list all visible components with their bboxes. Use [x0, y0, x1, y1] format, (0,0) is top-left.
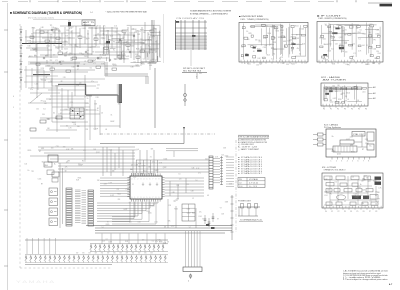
- svg-text:0.022: 0.022: [110, 195, 114, 197]
- svg-text:L101: L101: [149, 65, 153, 67]
- svg-text:0.022: 0.022: [114, 31, 118, 33]
- svg-text:5.6: 5.6: [178, 173, 180, 175]
- svg-text:C33: C33: [151, 52, 154, 54]
- key matrix grid: [70, 108, 84, 119]
- svg-text:5.6: 5.6: [101, 113, 103, 115]
- svg-text:C105: C105: [129, 33, 133, 35]
- svg-text:RT: RT: [41, 184, 43, 186]
- svg-text:4.7K: 4.7K: [99, 57, 102, 59]
- wires right of main IC: [165, 178, 204, 228]
- svg-text:1000P: 1000P: [72, 122, 76, 124]
- svg-text:68: 68: [357, 100, 359, 102]
- svg-text:P6: P6: [365, 109, 367, 111]
- svg-text:0.022: 0.022: [362, 190, 366, 192]
- svg-text:8.2K: 8.2K: [125, 241, 128, 243]
- tuner wiring mesh top-left: [21, 20, 160, 104]
- svg-text:X1: X1: [366, 45, 368, 47]
- svg-text:X1: X1: [122, 51, 124, 53]
- svg-text:IC1: IC1: [353, 53, 355, 55]
- svg-text:68: 68: [124, 59, 126, 61]
- bundle above IC to connector: [136, 149, 209, 173]
- svg-text:0.01: 0.01: [138, 163, 141, 165]
- svg-text:330: 330: [332, 86, 335, 88]
- svg-text:22K: 22K: [118, 199, 121, 201]
- svg-text:VT: VT: [378, 198, 380, 200]
- svg-text:8.2K: 8.2K: [196, 168, 199, 170]
- svg-text:0.01: 0.01: [205, 158, 208, 160]
- svg-text:P2: P2: [337, 109, 339, 111]
- svg-text:RT: RT: [46, 77, 48, 79]
- svg-text:D104: D104: [45, 32, 49, 34]
- connector pin labels: [226, 157, 234, 187]
- svg-text:100: 100: [60, 64, 63, 66]
- svg-text:6.8K: 6.8K: [101, 63, 104, 65]
- svg-text:IC1: IC1: [90, 68, 93, 70]
- svg-text:47u: 47u: [198, 173, 201, 175]
- svg-text:120: 120: [345, 96, 348, 98]
- svg-text:4.7K: 4.7K: [337, 101, 340, 103]
- pin name column mid 2: [82, 191, 87, 224]
- svg-text:68: 68: [105, 43, 107, 45]
- svg-text:2.2K: 2.2K: [376, 201, 379, 203]
- switch row upper: [90, 244, 168, 252]
- svg-text:D104: D104: [268, 33, 272, 35]
- svg-text:C33: C33: [192, 167, 195, 169]
- svg-text:22K: 22K: [344, 42, 347, 44]
- svg-text:330: 330: [376, 51, 379, 53]
- main area dashed border bottom: [20, 267, 112, 269]
- svg-text:P4: P4: [350, 211, 352, 213]
- svg-text:B+: B+: [127, 29, 129, 31]
- svg-text:0.01: 0.01: [352, 56, 355, 58]
- svg-text:B+: B+: [74, 54, 76, 56]
- svg-text:0.022: 0.022: [352, 33, 356, 35]
- svg-text:R101: R101: [247, 64, 251, 66]
- svg-text:X1: X1: [86, 110, 88, 112]
- svg-text:1-8: 1-8: [239, 183, 242, 185]
- svg-text:120: 120: [131, 165, 134, 167]
- svg-text:RT: RT: [109, 40, 111, 42]
- svg-text:330: 330: [42, 114, 45, 116]
- svg-text:R101: R101: [29, 56, 33, 58]
- svg-text:TP1: TP1: [31, 171, 34, 173]
- svg-text:47u: 47u: [34, 55, 37, 57]
- svg-text:100: 100: [247, 39, 250, 41]
- svg-text:VT: VT: [77, 69, 79, 71]
- svg-text:56K: 56K: [120, 58, 123, 60]
- svg-text:B+: B+: [97, 110, 99, 112]
- svg-text:8.2K: 8.2K: [109, 149, 112, 151]
- svg-text:VT: VT: [129, 203, 131, 205]
- svg-text:6.8K: 6.8K: [131, 66, 134, 68]
- svg-text:8.2K: 8.2K: [96, 26, 99, 28]
- svg-text:120: 120: [179, 179, 182, 181]
- svg-text:1000P: 1000P: [368, 179, 372, 181]
- svg-text:k: k: [188, 281, 189, 283]
- resistor chain row in AM box: [324, 87, 362, 90]
- svg-text:X1: X1: [124, 44, 126, 46]
- component cell column: [44, 162, 63, 228]
- svg-text:120: 120: [69, 113, 72, 115]
- svg-text:1/2W: 1/2W: [225, 202, 229, 204]
- svg-text:X1: X1: [339, 144, 341, 146]
- svg-text:8.2K: 8.2K: [149, 49, 152, 51]
- svg-text:Q102: Q102: [225, 156, 229, 158]
- svg-text:10K: 10K: [93, 149, 96, 151]
- svg-text:D104: D104: [373, 49, 377, 51]
- svg-text:68: 68: [61, 81, 63, 83]
- svg-text:R101: R101: [141, 64, 145, 66]
- svg-text:22K: 22K: [55, 118, 58, 120]
- svg-text:10K: 10K: [372, 63, 375, 65]
- svg-text:330: 330: [362, 179, 365, 181]
- svg-text:120: 120: [36, 109, 39, 111]
- right tick column: [231, 195, 234, 240]
- svg-text:Q102: Q102: [339, 37, 343, 39]
- svg-text:B+: B+: [54, 164, 56, 166]
- svg-text:2.2K: 2.2K: [76, 85, 79, 87]
- svg-text:IC1: IC1: [335, 182, 337, 184]
- svg-text:D104: D104: [46, 46, 50, 48]
- svg-text:68: 68: [207, 195, 209, 197]
- svg-text:330: 330: [375, 192, 378, 194]
- svg-text:Q102: Q102: [187, 213, 191, 215]
- svg-text:IC1: IC1: [83, 150, 86, 152]
- svg-text:Q102: Q102: [296, 38, 300, 40]
- svg-text:4.7K: 4.7K: [358, 51, 361, 53]
- svg-text:0.022: 0.022: [113, 65, 117, 67]
- svg-text:22K: 22K: [65, 35, 68, 37]
- svg-text:1/2W: 1/2W: [90, 28, 94, 30]
- ladder connector strip B: [88, 190, 94, 226]
- svg-text:5.6: 5.6: [375, 204, 377, 206]
- svg-text:47u: 47u: [199, 211, 202, 213]
- svg-text:120: 120: [330, 35, 333, 37]
- svg-text:68: 68: [253, 51, 255, 53]
- svg-text:5.6: 5.6: [360, 30, 362, 32]
- svg-text:68: 68: [31, 37, 33, 39]
- svg-text:Q102: Q102: [369, 24, 373, 26]
- svg-text:VT: VT: [31, 33, 33, 35]
- svg-text:X1: X1: [345, 30, 347, 32]
- svg-text:10K: 10K: [137, 34, 140, 36]
- svg-text:4.7K: 4.7K: [215, 157, 218, 159]
- svg-text:2.2K: 2.2K: [43, 101, 46, 103]
- svg-text:1000P: 1000P: [27, 41, 31, 43]
- svg-text:R101: R101: [351, 151, 355, 153]
- ladder connector strip A: [66, 188, 72, 226]
- feed drops to switch rows: [27, 238, 56, 254]
- svg-text:1/2W: 1/2W: [135, 165, 139, 167]
- svg-text:VT: VT: [291, 51, 293, 53]
- svg-text:2.2K: 2.2K: [363, 62, 366, 64]
- svg-text:5.6: 5.6: [195, 180, 197, 182]
- connector strip CN101: [117, 84, 122, 128]
- svg-text:X1: X1: [153, 204, 155, 206]
- svg-text:0 - 3.3: 0 - 3.3: [249, 186, 257, 188]
- connector strip CN605: [209, 156, 213, 189]
- svg-text:TP1: TP1: [373, 40, 376, 42]
- svg-text:X1: X1: [49, 99, 51, 101]
- svg-text:B+: B+: [103, 34, 105, 36]
- svg-text:ST DATA CLOCK CE 7: ST DATA CLOCK CE 7: [241, 172, 262, 175]
- svg-text:2.2K: 2.2K: [136, 199, 139, 201]
- svg-text:C33: C33: [254, 46, 257, 48]
- svg-text:C105: C105: [146, 211, 150, 213]
- svg-text:3. Circuit subject to change w: 3. Circuit subject to change without pri…: [343, 278, 389, 281]
- left border component chain: [20, 30, 23, 81]
- svg-text:P4: P4: [351, 109, 353, 111]
- svg-text:C105: C105: [118, 40, 122, 42]
- svg-text:AM TUNER: AM TUNER: [323, 78, 348, 81]
- svg-text:10K: 10K: [336, 24, 339, 26]
- svg-text:TP1: TP1: [155, 60, 158, 62]
- svg-text:R205: R205: [140, 30, 144, 32]
- svg-text:△ : SAFETY COMPONENT: △ : SAFETY COMPONENT: [238, 148, 260, 151]
- dash-dot control line: [100, 133, 215, 135]
- svg-text:B+: B+: [332, 136, 334, 138]
- svg-text:0.01: 0.01: [271, 47, 274, 49]
- svg-text:R101: R101: [267, 54, 271, 56]
- svg-text:TP1: TP1: [50, 25, 53, 27]
- svg-text:IC1: IC1: [358, 39, 360, 41]
- svg-text:Q102: Q102: [330, 102, 334, 104]
- svg-text:RT: RT: [378, 63, 380, 65]
- svg-text:2.2K: 2.2K: [103, 55, 106, 57]
- svg-text:8.2K: 8.2K: [323, 59, 326, 61]
- svg-text:100: 100: [51, 147, 54, 149]
- svg-text:RT: RT: [259, 41, 261, 43]
- svg-text:IC1: IC1: [93, 63, 96, 65]
- svg-text:B+: B+: [82, 115, 84, 117]
- svg-text:5.6: 5.6: [50, 80, 52, 82]
- svg-text:VT: VT: [281, 33, 283, 35]
- svg-text:22K: 22K: [229, 184, 232, 186]
- svg-text:22K: 22K: [327, 190, 330, 192]
- mid-left wiring: [28, 75, 120, 160]
- svg-text:120: 120: [53, 55, 56, 57]
- svg-text:100: 100: [25, 164, 28, 166]
- svg-text:P5: P5: [357, 211, 359, 213]
- svg-text:330: 330: [76, 47, 79, 49]
- svg-text:B+: B+: [360, 184, 362, 186]
- switch row upper labels: [76, 252, 153, 254]
- svg-text:R205: R205: [106, 224, 110, 226]
- svg-text:RT: RT: [39, 151, 41, 153]
- svg-text:47u: 47u: [297, 48, 300, 50]
- svg-text:6.8K: 6.8K: [187, 209, 190, 211]
- svg-text:R205: R205: [159, 242, 163, 244]
- svg-text:P2: P2: [338, 211, 340, 213]
- svg-text:L101: L101: [132, 41, 136, 43]
- sheet corner rule: [368, 2, 392, 4]
- svg-text:RT: RT: [296, 34, 298, 36]
- svg-text:22K: 22K: [97, 180, 100, 182]
- svg-text:IC1: IC1: [117, 189, 120, 191]
- svg-text:330: 330: [63, 147, 66, 149]
- svg-text:56K: 56K: [168, 221, 171, 223]
- svg-text:330: 330: [118, 104, 121, 106]
- diagonal wire: [30, 93, 42, 103]
- svg-text:C33: C33: [85, 129, 88, 131]
- svg-text:22K: 22K: [143, 32, 146, 34]
- svg-text:IC1: IC1: [53, 113, 56, 115]
- svg-text:IC1: IC1: [53, 32, 56, 34]
- labels right of AM box: [368, 86, 373, 88]
- svg-text:X1: X1: [84, 28, 86, 30]
- svg-text:120: 120: [66, 162, 69, 164]
- page top trim marks: [2, 0, 356, 2]
- svg-text:2.2K: 2.2K: [304, 63, 307, 65]
- svg-text:Q102: Q102: [122, 55, 126, 57]
- svg-text:330: 330: [361, 203, 364, 205]
- sub-circuit box at 317,21.5: [317, 14, 383, 64]
- svg-text:10K: 10K: [360, 195, 363, 197]
- svg-text:R205: R205: [174, 209, 178, 211]
- svg-text:D104: D104: [151, 206, 155, 208]
- svg-text:R205: R205: [274, 49, 278, 51]
- svg-text:10K: 10K: [47, 128, 50, 130]
- svg-text:0.022: 0.022: [328, 51, 332, 53]
- svg-text:8.2K: 8.2K: [148, 40, 151, 42]
- antenna label block T001: [82, 20, 95, 26]
- svg-text:2.2K: 2.2K: [70, 102, 73, 104]
- svg-text:6.8K: 6.8K: [332, 64, 335, 66]
- svg-text:120: 120: [142, 240, 145, 242]
- svg-text:10K: 10K: [221, 214, 224, 216]
- svg-text:8.2K: 8.2K: [110, 35, 113, 37]
- svg-text:5.6: 5.6: [87, 50, 89, 52]
- svg-text:22K: 22K: [265, 26, 268, 28]
- svg-text:IC1: IC1: [55, 60, 58, 62]
- svg-text:X1: X1: [150, 156, 152, 158]
- svg-text:0.01: 0.01: [97, 85, 100, 87]
- svg-text:0.01: 0.01: [341, 193, 344, 195]
- svg-text:6.8K: 6.8K: [41, 27, 44, 29]
- svg-text:NO SIGNAL (OPERATING) — ( ) W: NO SIGNAL (OPERATING) — ( ) WITH SIGNAL …: [190, 12, 228, 15]
- svg-text:RT: RT: [70, 109, 72, 111]
- svg-text:10K: 10K: [138, 166, 141, 168]
- svg-text:OPERATION / VOL SELECT: OPERATION / VOL SELECT: [324, 168, 347, 171]
- svg-text:47u: 47u: [152, 162, 155, 164]
- svg-text:2.2K: 2.2K: [68, 128, 71, 130]
- svg-text:100: 100: [177, 185, 180, 187]
- svg-text:22K: 22K: [82, 54, 85, 56]
- svg-text:2.2K: 2.2K: [378, 188, 381, 190]
- svg-text:C33: C33: [335, 44, 338, 46]
- svg-text:B+: B+: [280, 59, 282, 61]
- svg-text:120: 120: [352, 44, 355, 46]
- svg-text:1-4: 1-4: [90, 12, 93, 14]
- svg-text:47u: 47u: [280, 57, 283, 59]
- svg-text:5: 5: [352, 161, 353, 163]
- svg-text:0.022: 0.022: [148, 34, 152, 36]
- svg-text:IC1: IC1: [43, 109, 46, 111]
- svg-text:8: 8: [368, 161, 369, 163]
- svg-text:56K: 56K: [95, 28, 98, 30]
- svg-text:8.2K: 8.2K: [64, 55, 67, 57]
- svg-text:8.2K: 8.2K: [41, 68, 44, 70]
- svg-text:8.2K: 8.2K: [302, 44, 305, 46]
- svg-text:8.2K: 8.2K: [86, 103, 89, 105]
- svg-text:47u: 47u: [31, 87, 34, 89]
- svg-text:IC1: IC1: [331, 48, 333, 50]
- remote connector: [183, 231, 202, 283]
- svg-text:R205: R205: [192, 213, 196, 215]
- svg-text:10K: 10K: [340, 94, 343, 96]
- svg-text:10K: 10K: [129, 222, 132, 224]
- svg-text:100: 100: [359, 205, 362, 207]
- svg-text:P7: P7: [369, 211, 371, 213]
- svg-text:C33: C33: [175, 200, 178, 202]
- signal list: [238, 156, 262, 175]
- svg-text:0.01: 0.01: [58, 31, 61, 33]
- double-line power bus: [28, 20, 154, 84]
- svg-text:56K: 56K: [130, 169, 133, 171]
- svg-text:NOTE: B+ LINE VOLTAGE AT ST-BY: NOTE: B+ LINE VOLTAGE AT ST-BY MODE: [238, 136, 270, 139]
- svg-text:D104: D104: [347, 92, 351, 94]
- svg-text:2.2K: 2.2K: [290, 37, 293, 39]
- svg-text:X1: X1: [192, 198, 194, 200]
- svg-text:FM1 : TUNER (OPERATION): FM1 : TUNER (OPERATION): [241, 18, 269, 21]
- svg-text:4.7K: 4.7K: [104, 183, 107, 185]
- svg-text:68: 68: [65, 170, 67, 172]
- svg-text:Q102: Q102: [337, 154, 341, 156]
- svg-text:IC1: IC1: [270, 44, 272, 46]
- svg-text:IC1: IC1: [271, 58, 273, 60]
- svg-text:P1: P1: [331, 211, 333, 213]
- svg-text:VT: VT: [57, 64, 59, 66]
- PLL IC LM7001 box: [313, 125, 376, 163]
- svg-text:C33: C33: [140, 39, 143, 41]
- svg-text:C33: C33: [264, 45, 267, 47]
- operation amp selector box: [322, 167, 383, 210]
- svg-text:68: 68: [93, 52, 95, 54]
- svg-text:47u: 47u: [69, 44, 72, 46]
- svg-text:10K: 10K: [124, 33, 127, 35]
- svg-text:5.6: 5.6: [347, 99, 349, 101]
- svg-text:1000P: 1000P: [55, 86, 59, 88]
- svg-text:2.2K: 2.2K: [127, 49, 130, 51]
- svg-text:6.8K: 6.8K: [191, 190, 194, 192]
- svg-text:Q102: Q102: [102, 38, 106, 40]
- solid return line: [100, 143, 184, 145]
- svg-text:56K: 56K: [70, 60, 73, 62]
- svg-text:IC1: IC1: [41, 80, 44, 82]
- svg-text:2.2K: 2.2K: [139, 42, 142, 44]
- svg-text:5.6: 5.6: [94, 44, 96, 46]
- svg-text:68: 68: [94, 47, 96, 49]
- svg-text:R101: R101: [322, 39, 326, 41]
- svg-text:47u: 47u: [30, 89, 33, 91]
- sheet model label: [380, 4, 393, 7]
- svg-text:VT: VT: [189, 227, 191, 229]
- svg-text:R205: R205: [280, 30, 284, 32]
- svg-text:TP1: TP1: [186, 184, 189, 186]
- page left edge line: [4, 3, 8, 290]
- svg-text:■ IF COUNT: ■ IF COUNT: [317, 14, 342, 17]
- svg-text:C105: C105: [61, 61, 65, 63]
- svg-text:L101: L101: [271, 27, 274, 29]
- svg-text:B+: B+: [28, 170, 30, 172]
- svg-text:VT: VT: [220, 208, 222, 210]
- svg-text:8.2K: 8.2K: [158, 240, 161, 242]
- svg-text:10K: 10K: [135, 30, 138, 32]
- svg-text:L101: L101: [67, 37, 71, 39]
- svg-text:R205: R205: [257, 49, 261, 51]
- svg-text:X1: X1: [148, 46, 150, 48]
- svg-text:47u: 47u: [153, 36, 156, 38]
